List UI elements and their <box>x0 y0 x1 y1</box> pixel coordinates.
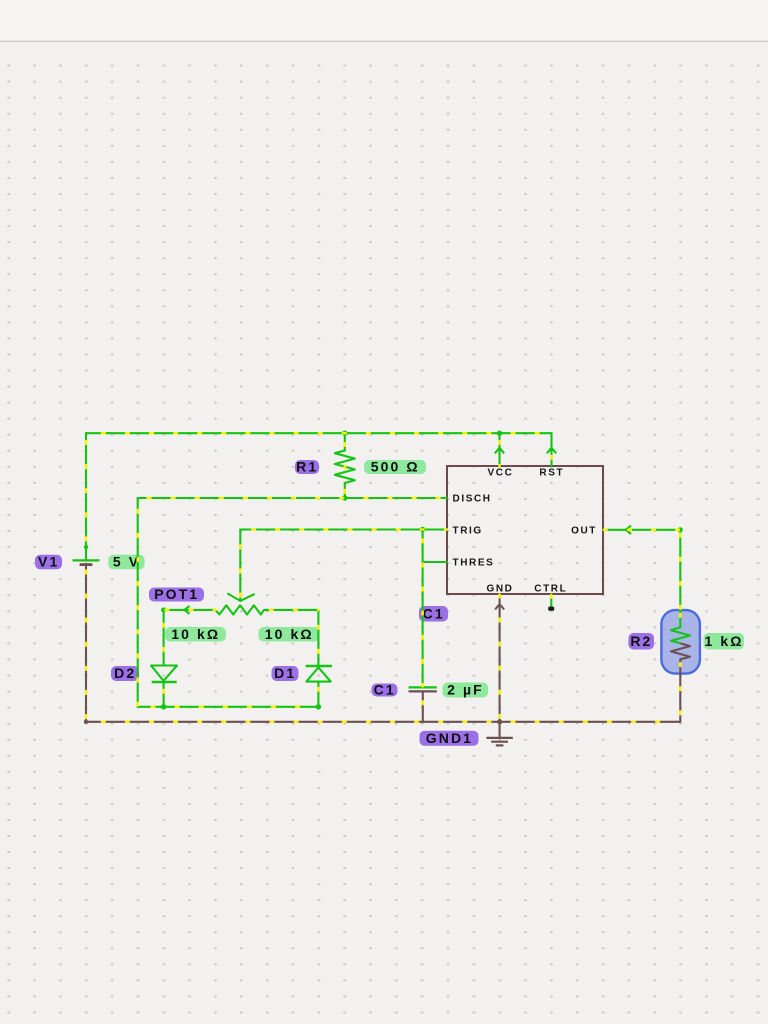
diode D2 cathode bar <box>152 681 177 683</box>
wire wiper drop <box>239 530 241 601</box>
wire CTRL stub <box>550 594 552 607</box>
svg-text:GND: GND <box>486 583 513 594</box>
svg-text:R2: R2 <box>630 633 652 649</box>
current dashes D2 leads <box>162 610 165 666</box>
svg-text:2 µF: 2 µF <box>447 682 484 698</box>
wire diode bottom rail <box>138 706 319 708</box>
current dashes DISCH wire <box>138 497 447 500</box>
arrow up on RST drop <box>547 448 556 453</box>
svg-text:GND1: GND1 <box>426 730 473 746</box>
CTRL terminal dot <box>548 607 554 611</box>
wire R1 bottom stub <box>344 483 346 498</box>
battery V1 positive plate <box>73 559 100 561</box>
wire POT right lead <box>264 609 318 611</box>
diode D2 triangle <box>151 666 177 681</box>
ground GND1 symbol <box>486 738 512 746</box>
op-amp U1 555 timer box <box>447 466 603 594</box>
current dashes R2 bottom lead <box>679 659 682 722</box>
current dashes ground rail <box>86 720 680 723</box>
potentiometer POT1 zigzag <box>216 605 265 614</box>
current dashes wiper drop <box>239 530 242 598</box>
svg-text:V1: V1 <box>38 554 59 570</box>
svg-text:5 V: 5 V <box>113 554 140 570</box>
label 1 kohm value <box>704 633 745 650</box>
svg-text:OUT: OUT <box>571 525 597 536</box>
current dashes left drop <box>136 498 139 707</box>
label GND1 <box>420 730 479 746</box>
junction D2 on diode rail <box>161 704 166 709</box>
current dashes C1 riser <box>421 530 424 687</box>
wire OUT horizontal <box>603 529 680 531</box>
current dashes OUT wire <box>603 528 680 531</box>
current dashes diode rail <box>138 705 319 708</box>
svg-text:1 kΩ: 1 kΩ <box>704 633 743 649</box>
wire R2 bottom lead <box>679 659 681 722</box>
svg-text:VCC: VCC <box>488 468 514 479</box>
svg-text:500 Ω: 500 Ω <box>371 459 420 475</box>
wire C1 bottom lead <box>422 691 424 721</box>
potentiometer POT1 wiper arrow <box>227 593 254 601</box>
junction OUT corner <box>678 527 683 532</box>
junction D1 on diode rail <box>316 704 321 709</box>
current dashes R1 stubs <box>343 433 346 450</box>
current dashes left rail <box>85 433 88 560</box>
label 2 uF value <box>443 682 489 698</box>
wire battery negative drop <box>85 565 87 722</box>
wire DISCH horizontal <box>138 497 447 499</box>
current dashes R2 top <box>679 613 682 628</box>
label C1 upper <box>419 605 448 621</box>
arrow on POT left lead <box>184 606 189 614</box>
junction GND on ground rail <box>497 719 502 724</box>
wire THRES riser to C1 <box>422 530 424 687</box>
svg-text:R1: R1 <box>296 459 318 475</box>
svg-text:D1: D1 <box>274 665 296 681</box>
arrow left on OUT wire <box>626 526 631 534</box>
capacitor C1 bottom plate <box>409 690 437 692</box>
wire ground bottom rail <box>86 721 680 723</box>
battery V1 negative plate <box>80 563 93 566</box>
arrow up on GND drop <box>495 604 504 609</box>
junction THRES riser on TRIG <box>420 527 425 532</box>
wire THRES stub <box>423 561 447 563</box>
junction R1 bottom on DISCH <box>342 495 347 500</box>
label C1 lower <box>372 681 398 697</box>
diode D1 triangle <box>306 667 330 681</box>
current dashes POT leads <box>164 609 216 612</box>
wire VCC drop <box>498 433 500 466</box>
current dashes GND drop <box>498 594 501 738</box>
wire R1 top stub <box>344 433 346 450</box>
label 10 kohm left value <box>165 626 226 642</box>
svg-text:C1: C1 <box>423 605 445 621</box>
toolbar strip <box>0 0 768 41</box>
resistor R1 zigzag <box>335 451 355 484</box>
label 5 V value <box>108 554 144 570</box>
svg-text:POT1: POT1 <box>154 586 199 602</box>
current dashes C1 bottom lead <box>421 691 424 721</box>
label D1 <box>272 665 299 681</box>
wire D2 bottom lead <box>163 682 165 707</box>
junction R1 top <box>342 431 347 436</box>
wire OUT drop to R2 <box>679 530 681 628</box>
selection highlight on R2 <box>661 610 700 674</box>
resistor R2 zigzag upper green <box>671 627 690 643</box>
resistor R2 zigzag lower dark <box>671 643 690 659</box>
label POT1 <box>149 586 204 602</box>
svg-text:DISCH: DISCH <box>453 494 492 505</box>
wire D1 top lead <box>317 610 319 666</box>
wire D2 top lead <box>163 610 165 666</box>
wire GND pin drop <box>499 594 501 738</box>
svg-text:CTRL: CTRL <box>534 583 567 594</box>
label D2 <box>111 665 139 681</box>
svg-text:TRIG: TRIG <box>453 525 483 536</box>
capacitor C1 top plate <box>409 686 437 688</box>
label 500 ohm value <box>364 459 426 475</box>
svg-text:D2: D2 <box>114 665 136 681</box>
junction VCC rail <box>497 431 502 436</box>
current dashes RST drop <box>550 438 553 466</box>
junction V1 corner on ground rail <box>84 720 88 724</box>
current dashes VCC drop <box>498 433 501 466</box>
svg-text:10 kΩ: 10 kΩ <box>171 626 220 642</box>
wire RST drop <box>550 433 552 466</box>
label 10 kohm right value <box>259 626 320 642</box>
wire left drop to diode rail <box>137 498 139 707</box>
svg-text:RST: RST <box>539 468 564 479</box>
junction battery top <box>84 545 88 549</box>
label R1 <box>295 459 319 475</box>
wire D1 bottom lead <box>317 682 319 707</box>
diode D1 cathode bar <box>306 665 332 667</box>
current dashes OUT drop <box>679 530 682 628</box>
current dashes top rail <box>86 432 552 435</box>
current dashes battery drop <box>85 565 88 722</box>
svg-text:10 kΩ: 10 kΩ <box>265 626 314 642</box>
wire POT left lead <box>164 609 216 611</box>
current dashes TRIG wire <box>240 528 447 531</box>
current dashes D1 leads <box>317 610 320 666</box>
arrow up on VCC drop <box>495 448 504 453</box>
wire top rail <box>86 432 552 434</box>
svg-text:THRES: THRES <box>453 557 495 568</box>
current dashes CTRL stub <box>550 594 553 600</box>
label R2 <box>629 633 655 650</box>
svg-text:C1: C1 <box>374 681 396 697</box>
wire TRIG horizontal <box>240 528 447 530</box>
wire left rail <box>85 433 87 560</box>
junction POT left corner <box>161 607 166 612</box>
label V1 <box>35 554 62 570</box>
